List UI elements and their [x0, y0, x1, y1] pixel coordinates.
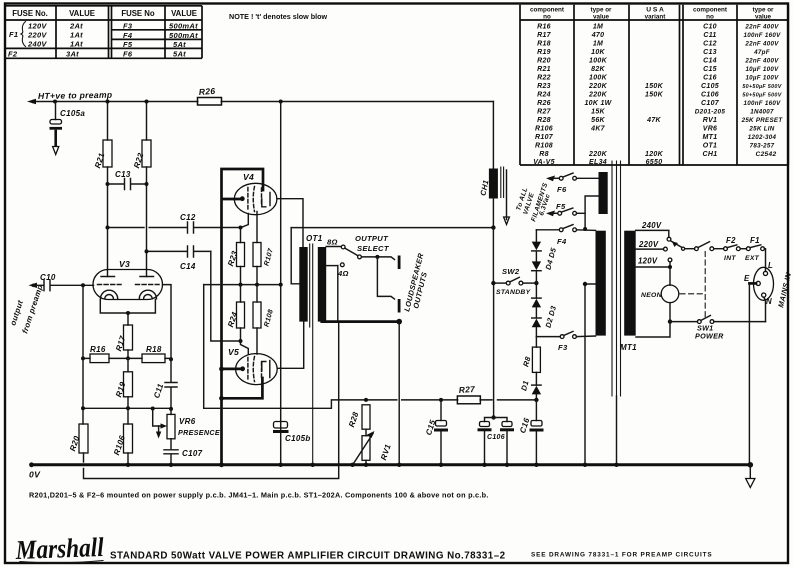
- svg-text:10K 1W: 10K 1W: [584, 100, 612, 107]
- svg-text:47pF: 47pF: [753, 49, 770, 56]
- svg-text:value: value: [755, 14, 772, 21]
- wire V5 plate to OT1: [277, 322, 304, 369]
- fuse F1: [745, 236, 766, 271]
- svg-text:25K PRESET: 25K PRESET: [741, 117, 784, 124]
- svg-text:25K LIN: 25K LIN: [748, 126, 774, 133]
- svg-text:R108: R108: [263, 309, 274, 328]
- primary tap 120V: [636, 257, 672, 286]
- svg-text:22nF 400V: 22nF 400V: [744, 23, 779, 30]
- svg-text:MT1: MT1: [703, 134, 718, 141]
- mains transformer MT1: [583, 161, 637, 465]
- fuse F4: [536, 225, 595, 246]
- svg-text:HT+ve to preamp: HT+ve to preamp: [38, 90, 113, 101]
- diode D1: [519, 379, 541, 399]
- svg-text:SEE DRAWING 78331–1 FOR PREA: SEE DRAWING 78331–1 FOR PREAMP CIRCUITS: [531, 552, 712, 559]
- pentode V5: [228, 347, 277, 385]
- svg-text:C16: C16: [703, 75, 717, 82]
- svg-text:R16: R16: [90, 345, 106, 354]
- svg-text:C13: C13: [115, 170, 131, 179]
- svg-text:C10: C10: [40, 273, 56, 282]
- svg-text:INT: INT: [724, 255, 736, 262]
- svg-text:5At: 5At: [173, 50, 186, 59]
- capacitor C13: [106, 170, 149, 190]
- svg-text:R18: R18: [146, 345, 162, 354]
- svg-text:56K: 56K: [591, 117, 605, 124]
- svg-text:F3: F3: [558, 343, 568, 352]
- resistor R27: [457, 384, 480, 404]
- resistor R28: [347, 398, 370, 429]
- svg-text:3At: 3At: [66, 50, 79, 59]
- svg-text:L: L: [768, 261, 773, 270]
- switch gang dashed link: [704, 252, 706, 319]
- svg-text:V5: V5: [228, 347, 239, 357]
- thick cathode bus of V4/V5: [222, 169, 264, 465]
- svg-text:R17: R17: [537, 32, 552, 39]
- resistor R20: [68, 424, 88, 462]
- resistor R26: [198, 86, 222, 105]
- svg-text:2At: 2At: [69, 22, 83, 31]
- svg-text:C12: C12: [180, 213, 196, 222]
- feedback wire under rail: [84, 322, 339, 479]
- svg-text:R21: R21: [537, 66, 551, 73]
- svg-text:F1: F1: [9, 30, 18, 39]
- svg-text:component: component: [693, 7, 728, 14]
- svg-text:F4: F4: [557, 237, 567, 246]
- svg-text:5At: 5At: [173, 40, 186, 49]
- svg-text:10µF 100V: 10µF 100V: [745, 75, 779, 82]
- svg-text:R24: R24: [226, 310, 239, 328]
- svg-text:SELECT: SELECT: [357, 244, 390, 253]
- svg-text:120V: 120V: [638, 257, 658, 266]
- svg-text:15K: 15K: [591, 109, 605, 116]
- wire screen supply line: [280, 102, 282, 465]
- svg-text:1N4007: 1N4007: [750, 109, 774, 116]
- svg-text:SW2: SW2: [502, 267, 520, 276]
- rail junction dots: [126, 463, 130, 467]
- fuse table (top left): [5, 6, 202, 59]
- svg-text:F6: F6: [123, 50, 133, 59]
- svg-text:R26: R26: [537, 100, 551, 107]
- fuse F3: [536, 331, 595, 352]
- svg-text:R24: R24: [537, 92, 551, 99]
- mains switch SW1 upper pole: [695, 247, 699, 251]
- mains inlet connector: [744, 261, 793, 465]
- svg-text:V4: V4: [243, 172, 254, 182]
- svg-text:N: N: [766, 297, 772, 306]
- svg-text:RV1: RV1: [379, 443, 393, 462]
- svg-text:R27: R27: [458, 384, 475, 395]
- svg-text:STANDBY: STANDBY: [496, 289, 532, 296]
- svg-text:POWER: POWER: [695, 332, 724, 341]
- svg-text:100K: 100K: [589, 58, 608, 65]
- fuse F2: [724, 236, 747, 262]
- svg-text:STANDARD 50Watt VALVE POWER: STANDARD 50Watt VALVE POWER AMPLIFIER CI…: [110, 551, 506, 562]
- svg-text:100nF 160V: 100nF 160V: [743, 32, 781, 39]
- table rows handwritten: [533, 23, 783, 166]
- svg-text:F3: F3: [123, 22, 133, 31]
- svg-text:C11: C11: [703, 32, 716, 39]
- resistor R107: [253, 243, 275, 285]
- svg-text:U S A: U S A: [646, 7, 664, 14]
- svg-text:F5: F5: [556, 202, 566, 211]
- resistor R23: [226, 228, 244, 285]
- resistor R8: [521, 337, 540, 386]
- resistor R18: [126, 345, 173, 363]
- svg-text:OT1: OT1: [306, 234, 323, 243]
- svg-text:C10: C10: [703, 23, 717, 30]
- resistor R22: [132, 100, 151, 277]
- svg-text:C15: C15: [424, 418, 437, 436]
- wire CH1 down to C106: [492, 228, 494, 418]
- 0V rail: [31, 463, 751, 466]
- svg-text:no: no: [543, 14, 551, 21]
- svg-text:220V: 220V: [638, 240, 659, 249]
- svg-text:V3: V3: [119, 259, 130, 269]
- svg-text:type or: type or: [591, 7, 613, 14]
- svg-text:C13: C13: [703, 49, 717, 56]
- svg-text:220V: 220V: [27, 31, 47, 40]
- svg-text:EXT: EXT: [745, 255, 760, 262]
- svg-text:C105: C105: [701, 83, 719, 90]
- svg-text:E: E: [744, 274, 750, 283]
- svg-text:MAINS IN: MAINS IN: [776, 271, 793, 308]
- potentiometer VR6 presence: [153, 409, 220, 449]
- svg-text:500mAt: 500mAt: [169, 22, 198, 31]
- svg-text:220K: 220K: [588, 151, 608, 158]
- svg-text:EL34: EL34: [589, 159, 607, 166]
- svg-text:C105a: C105a: [60, 109, 85, 118]
- svg-text:82K: 82K: [591, 66, 605, 73]
- svg-text:120K: 120K: [645, 151, 664, 158]
- svg-text:150K: 150K: [645, 83, 664, 90]
- capacitor C106 (twin): [479, 415, 513, 465]
- HT+ve rail: [31, 101, 493, 103]
- svg-text:100nF 160V: 100nF 160V: [743, 100, 781, 107]
- svg-text:1At: 1At: [70, 40, 83, 49]
- node bias rectifier out: [534, 398, 538, 402]
- capacitor C105a: [50, 102, 86, 155]
- svg-text:R8: R8: [521, 355, 532, 368]
- svg-text:R28: R28: [537, 117, 551, 124]
- output transformer OT1: [291, 228, 326, 465]
- 8 ohm tap and output select switch: [326, 234, 394, 299]
- svg-text:FUSE No: FUSE No: [121, 9, 155, 18]
- triode V3: [93, 259, 171, 359]
- svg-text:0V: 0V: [29, 470, 41, 480]
- heater fuse F5: [546, 196, 599, 231]
- HT rail left terminal arrow: [27, 99, 36, 104]
- svg-text:R19: R19: [537, 49, 551, 56]
- svg-text:240V: 240V: [27, 40, 47, 49]
- svg-text:C14: C14: [703, 58, 717, 65]
- svg-text:22nF 400V: 22nF 400V: [744, 58, 779, 65]
- svg-text:MT1: MT1: [620, 343, 637, 352]
- choke CH1: [478, 102, 509, 230]
- node V5 grid junction: [239, 339, 243, 343]
- svg-text:470: 470: [591, 32, 605, 39]
- standby switch SW2: [491, 267, 534, 296]
- svg-text:Marshall: Marshall: [14, 532, 104, 565]
- heater fuse F6: [546, 173, 599, 194]
- mains switch SW1 lower pole: [670, 316, 766, 341]
- thick speaker common to 0V: [322, 320, 399, 323]
- svg-text:500mAt: 500mAt: [169, 31, 198, 40]
- wire V4 g2 lead: [256, 212, 258, 243]
- svg-text:C14: C14: [180, 262, 196, 271]
- svg-text:VALUE: VALUE: [171, 9, 197, 18]
- svg-text:120V: 120V: [28, 22, 47, 31]
- svg-text:8Ω: 8Ω: [327, 238, 338, 247]
- svg-text:R27: R27: [537, 109, 552, 116]
- svg-text:220K: 220K: [588, 83, 608, 90]
- svg-text:C106: C106: [487, 434, 505, 441]
- svg-text:component: component: [530, 7, 565, 14]
- svg-text:R26: R26: [198, 86, 215, 97]
- capacitor C12: [106, 213, 241, 233]
- node R23 top: [239, 226, 243, 230]
- svg-text:C16: C16: [518, 416, 531, 434]
- svg-text:PRESENCE: PRESENCE: [178, 428, 220, 437]
- resistor R106: [112, 408, 132, 465]
- chassis ground terminal: [748, 462, 754, 468]
- capacitor C16: [518, 400, 542, 465]
- svg-text:150K: 150K: [645, 92, 664, 99]
- svg-text:1202-304: 1202-304: [748, 134, 777, 141]
- capacitor C105b: [274, 422, 311, 444]
- svg-text:C107: C107: [182, 449, 203, 458]
- svg-text:R23: R23: [226, 249, 239, 267]
- wire bias row y284.6: [204, 284, 281, 286]
- svg-text:220K: 220K: [588, 92, 608, 99]
- primary tap 220V: [636, 240, 668, 251]
- capacitor C10: [29, 273, 94, 291]
- svg-text:50+50µF 500V: 50+50µF 500V: [742, 93, 781, 99]
- svg-text:OUTPUT: OUTPUT: [355, 234, 389, 243]
- capacitor C11: [152, 359, 177, 409]
- svg-text:4Ω: 4Ω: [337, 269, 349, 278]
- svg-text:R28: R28: [347, 410, 360, 428]
- svg-text:1At: 1At: [70, 31, 83, 40]
- resistor R19: [114, 358, 132, 408]
- svg-text:VR6: VR6: [179, 417, 196, 426]
- svg-text:100K: 100K: [589, 75, 608, 82]
- svg-text:R22: R22: [537, 75, 551, 82]
- svg-text:VALUE: VALUE: [69, 9, 95, 18]
- svg-text:10µF 100V: 10µF 100V: [745, 66, 779, 73]
- svg-text:type or: type or: [753, 7, 775, 14]
- svg-text:R19: R19: [114, 380, 127, 398]
- svg-text:240V: 240V: [641, 221, 662, 230]
- voltage selector arm: [671, 241, 682, 248]
- bias feed wire: [204, 285, 537, 409]
- svg-text:D2 D3: D2 D3: [544, 304, 559, 329]
- svg-text:value: value: [593, 14, 610, 21]
- node C105a junction: [53, 100, 57, 104]
- svg-text:783-257: 783-257: [750, 143, 775, 150]
- svg-text:F4: F4: [123, 31, 133, 40]
- svg-text:variant: variant: [645, 14, 667, 21]
- svg-text:CH1: CH1: [478, 179, 490, 197]
- svg-text:OT1: OT1: [703, 143, 718, 150]
- wire C14 to V5 grid: [211, 251, 241, 341]
- svg-text:D4 D5: D4 D5: [544, 246, 559, 271]
- preset RV1: [350, 429, 393, 467]
- svg-text:R106: R106: [535, 126, 553, 133]
- primary tap 240V: [636, 221, 671, 241]
- svg-text:R23: R23: [537, 83, 551, 90]
- resistor R16: [81, 345, 128, 363]
- svg-text:NEON: NEON: [641, 292, 663, 299]
- svg-text:F1: F1: [750, 236, 760, 245]
- pentode V4: [234, 172, 277, 215]
- svg-text:R108: R108: [535, 143, 553, 150]
- svg-text:C105b: C105b: [285, 434, 311, 443]
- 4 ohm tap: [326, 263, 349, 322]
- capacitor C15: [424, 398, 446, 465]
- svg-text:C2542: C2542: [756, 151, 777, 158]
- svg-text:1M: 1M: [593, 23, 603, 30]
- svg-text:C15: C15: [703, 66, 717, 73]
- svg-text:F2: F2: [726, 236, 736, 245]
- node screen supply: [279, 100, 283, 104]
- svg-text:D201-205: D201-205: [695, 109, 726, 116]
- rectifier diodes D5 D4: [532, 230, 559, 283]
- svg-text:VA-V5: VA-V5: [533, 159, 555, 166]
- loudspeaker jacks: [398, 256, 401, 270]
- resistor R108: [253, 285, 275, 354]
- svg-text:D1: D1: [519, 379, 530, 391]
- svg-text:R18: R18: [537, 40, 551, 47]
- svg-text:C12: C12: [703, 40, 717, 47]
- rectifier diodes D3 D2: [532, 283, 559, 337]
- wire R24 to V5: [241, 341, 249, 354]
- component value table (top right): [520, 5, 788, 167]
- resistor R24: [226, 285, 244, 341]
- svg-text:VR6: VR6: [703, 126, 718, 133]
- wire CH1 to OT1 centre tap: [291, 227, 493, 229]
- svg-text:R16: R16: [537, 23, 551, 30]
- svg-text:22nF 400V: 22nF 400V: [744, 40, 779, 47]
- svg-text:C106: C106: [701, 92, 719, 99]
- svg-text:NOTE ! 't' denotes slow blow: NOTE ! 't' denotes slow blow: [229, 12, 327, 21]
- resistor R17: [114, 313, 132, 358]
- svg-text:R20: R20: [537, 58, 551, 65]
- svg-text:10K: 10K: [591, 49, 605, 56]
- svg-text:CH1: CH1: [703, 151, 718, 158]
- svg-text:R201,D201–5 & F2–6 mounted on: R201,D201–5 & F2–6 mounted on power supp…: [29, 491, 489, 500]
- svg-text:1M: 1M: [593, 40, 603, 47]
- neon lamp: [641, 285, 679, 324]
- svg-text:R107: R107: [535, 134, 554, 141]
- svg-text:50+50µF 500V: 50+50µF 500V: [742, 84, 781, 90]
- wire neon node to primary bottom: [636, 322, 670, 337]
- svg-text:C107: C107: [701, 100, 720, 107]
- svg-text:R8: R8: [539, 151, 549, 158]
- svg-text:C11: C11: [152, 382, 165, 399]
- wire cathode row y408: [83, 285, 171, 424]
- svg-text:4K7: 4K7: [590, 126, 606, 133]
- svg-text:47K: 47K: [646, 117, 661, 124]
- wire V4 grid lead to R23: [241, 214, 248, 228]
- svg-text:F2: F2: [8, 50, 18, 59]
- resistor R21: [93, 100, 112, 277]
- svg-text:RV1: RV1: [703, 117, 718, 124]
- svg-text:no: no: [706, 14, 714, 21]
- svg-text:6550: 6550: [646, 159, 663, 166]
- wire V4 plate to OT1: [277, 199, 303, 247]
- svg-text:from preamp: from preamp: [20, 283, 44, 334]
- node rectifier mid: [534, 281, 538, 285]
- capacitor C14: [145, 246, 211, 271]
- svg-text:FUSE No.: FUSE No.: [12, 9, 48, 18]
- capacitor C107: [164, 449, 203, 465]
- svg-text:R107: R107: [263, 247, 275, 267]
- svg-text:F5: F5: [123, 40, 133, 49]
- svg-text:F6: F6: [557, 185, 567, 194]
